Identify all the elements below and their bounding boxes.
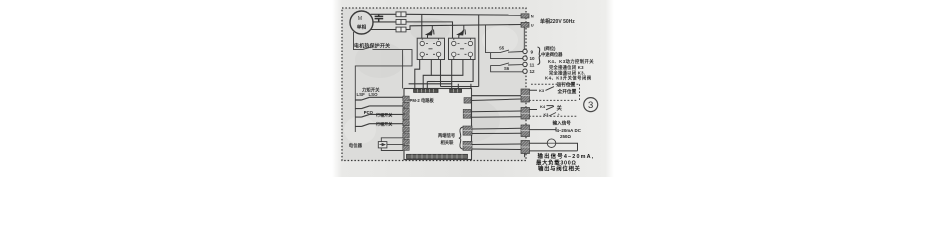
svg-text:S5: S5: [499, 45, 505, 50]
svg-text:全开位置: 全开位置: [557, 88, 577, 95]
svg-text:3: 3: [588, 100, 593, 111]
svg-text:PM-2 电路板: PM-2 电路板: [410, 97, 435, 104]
svg-text:PCO: PCO: [364, 110, 374, 115]
svg-text:9: 9: [531, 49, 534, 54]
svg-text:N: N: [531, 14, 534, 19]
svg-text:行程开关: 行程开关: [375, 121, 393, 127]
svg-text:相关联: 相关联: [441, 139, 455, 146]
svg-text:11: 11: [530, 63, 535, 68]
svg-text:K3: K3: [544, 113, 549, 117]
svg-text:4–20mA DC: 4–20mA DC: [557, 128, 582, 133]
svg-text:最大负载300Ω: 最大负载300Ω: [536, 158, 576, 166]
svg-text:K3: K3: [539, 88, 545, 93]
svg-text:10: 10: [530, 56, 536, 61]
svg-text:电机热保护开关: 电机热保护开关: [354, 42, 390, 49]
svg-text:U: U: [531, 23, 534, 28]
svg-text:输出与阀位相关: 输出与阀位相关: [538, 165, 581, 173]
svg-text:两端信号: 两端信号: [438, 132, 456, 139]
svg-text:中途阀位器: 中途阀位器: [541, 51, 563, 58]
svg-text:+: +: [558, 112, 561, 117]
svg-text:K4、K3开关信号闭阀: K4、K3开关信号闭阀: [545, 75, 592, 82]
svg-text:LSF LSO: LSF LSO: [357, 92, 379, 97]
svg-text:单相: 单相: [357, 24, 367, 31]
svg-text:M: M: [358, 16, 362, 22]
svg-text:电位器: 电位器: [349, 142, 363, 149]
svg-text:单相220V 50Hz: 单相220V 50Hz: [540, 18, 575, 25]
svg-text:关: 关: [557, 104, 563, 112]
svg-text:S6: S6: [504, 66, 510, 71]
svg-text:12: 12: [530, 69, 536, 74]
svg-text:行程开关: 行程开关: [375, 111, 393, 117]
svg-text:K4、K3动力控制开关: K4、K3动力控制开关: [548, 58, 594, 65]
svg-text:运行位置: 运行位置: [557, 81, 576, 88]
svg-text:输出信号4–20mA,: 输出信号4–20mA,: [538, 152, 595, 160]
svg-text:K4: K4: [540, 104, 546, 109]
svg-text:250Ω: 250Ω: [560, 134, 571, 139]
svg-text:输入信号: 输入信号: [553, 120, 572, 127]
svg-text:(阀位): (阀位): [544, 45, 556, 52]
